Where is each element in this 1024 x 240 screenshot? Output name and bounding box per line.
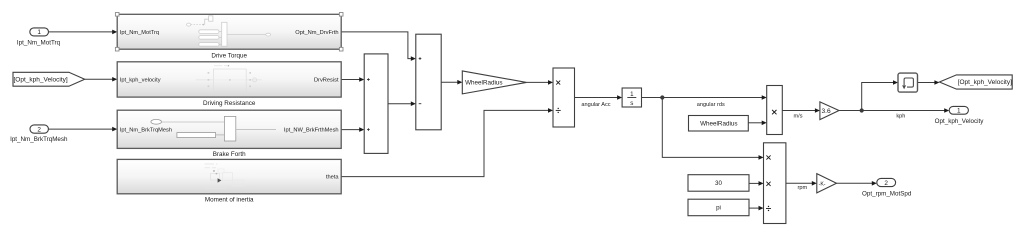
svg-text:Ipt_kph_velocity: Ipt_kph_velocity (120, 78, 161, 84)
svg-text:kph: kph (896, 114, 905, 120)
svg-text:Ipt_Nm_MotTrq: Ipt_Nm_MotTrq (120, 30, 159, 36)
svg-text:WheelRadius: WheelRadius (465, 80, 502, 87)
svg-text:Moment of inertia: Moment of inertia (205, 197, 254, 204)
svg-text:angular Acc: angular Acc (581, 102, 610, 108)
svg-text:m/s: m/s (793, 113, 802, 119)
svg-text:DrvResist: DrvResist (314, 78, 339, 84)
svg-text:Opt_rpm_MotSpd: Opt_rpm_MotSpd (862, 190, 912, 197)
svg-text:Driving Resistance: Driving Resistance (203, 100, 256, 107)
svg-text:theta: theta (326, 175, 339, 181)
svg-text:Ipt_NW_BrkFrthMesh: Ipt_NW_BrkFrthMesh (284, 127, 339, 133)
svg-text:1: 1 (630, 91, 634, 98)
svg-text:[Opt_kph_Velocity]: [Opt_kph_Velocity] (958, 79, 1012, 86)
svg-text:Brake Forth: Brake Forth (213, 151, 246, 158)
svg-text:Opt_kph_Velocity: Opt_kph_Velocity (935, 118, 985, 125)
svg-text:pi: pi (716, 205, 721, 212)
svg-text:1: 1 (37, 29, 41, 36)
svg-text:2: 2 (884, 180, 888, 187)
svg-text:1: 1 (957, 108, 961, 115)
svg-text:Opt_Nm_DrvFrth: Opt_Nm_DrvFrth (295, 30, 338, 36)
svg-text:30: 30 (715, 180, 722, 187)
svg-text:[Opt_kph_Velocity]: [Opt_kph_Velocity] (14, 77, 68, 84)
svg-text:Ipt_Nm_BrkTrqMesh: Ipt_Nm_BrkTrqMesh (120, 127, 172, 133)
svg-text:Ipt_Nm_MotTrq: Ipt_Nm_MotTrq (17, 40, 61, 47)
svg-text:Ipt_Nm_BrkTrqMesh: Ipt_Nm_BrkTrqMesh (10, 136, 68, 143)
svg-text:WheelRadius: WheelRadius (700, 120, 737, 127)
svg-text:Drive Torque: Drive Torque (211, 52, 247, 59)
svg-text:s: s (630, 100, 633, 107)
svg-text:2: 2 (37, 126, 41, 133)
svg-text:-K-: -K- (819, 181, 826, 187)
svg-text:rpm: rpm (797, 185, 807, 191)
svg-text:angular rds: angular rds (697, 102, 725, 108)
svg-text:3.6: 3.6 (822, 108, 831, 115)
